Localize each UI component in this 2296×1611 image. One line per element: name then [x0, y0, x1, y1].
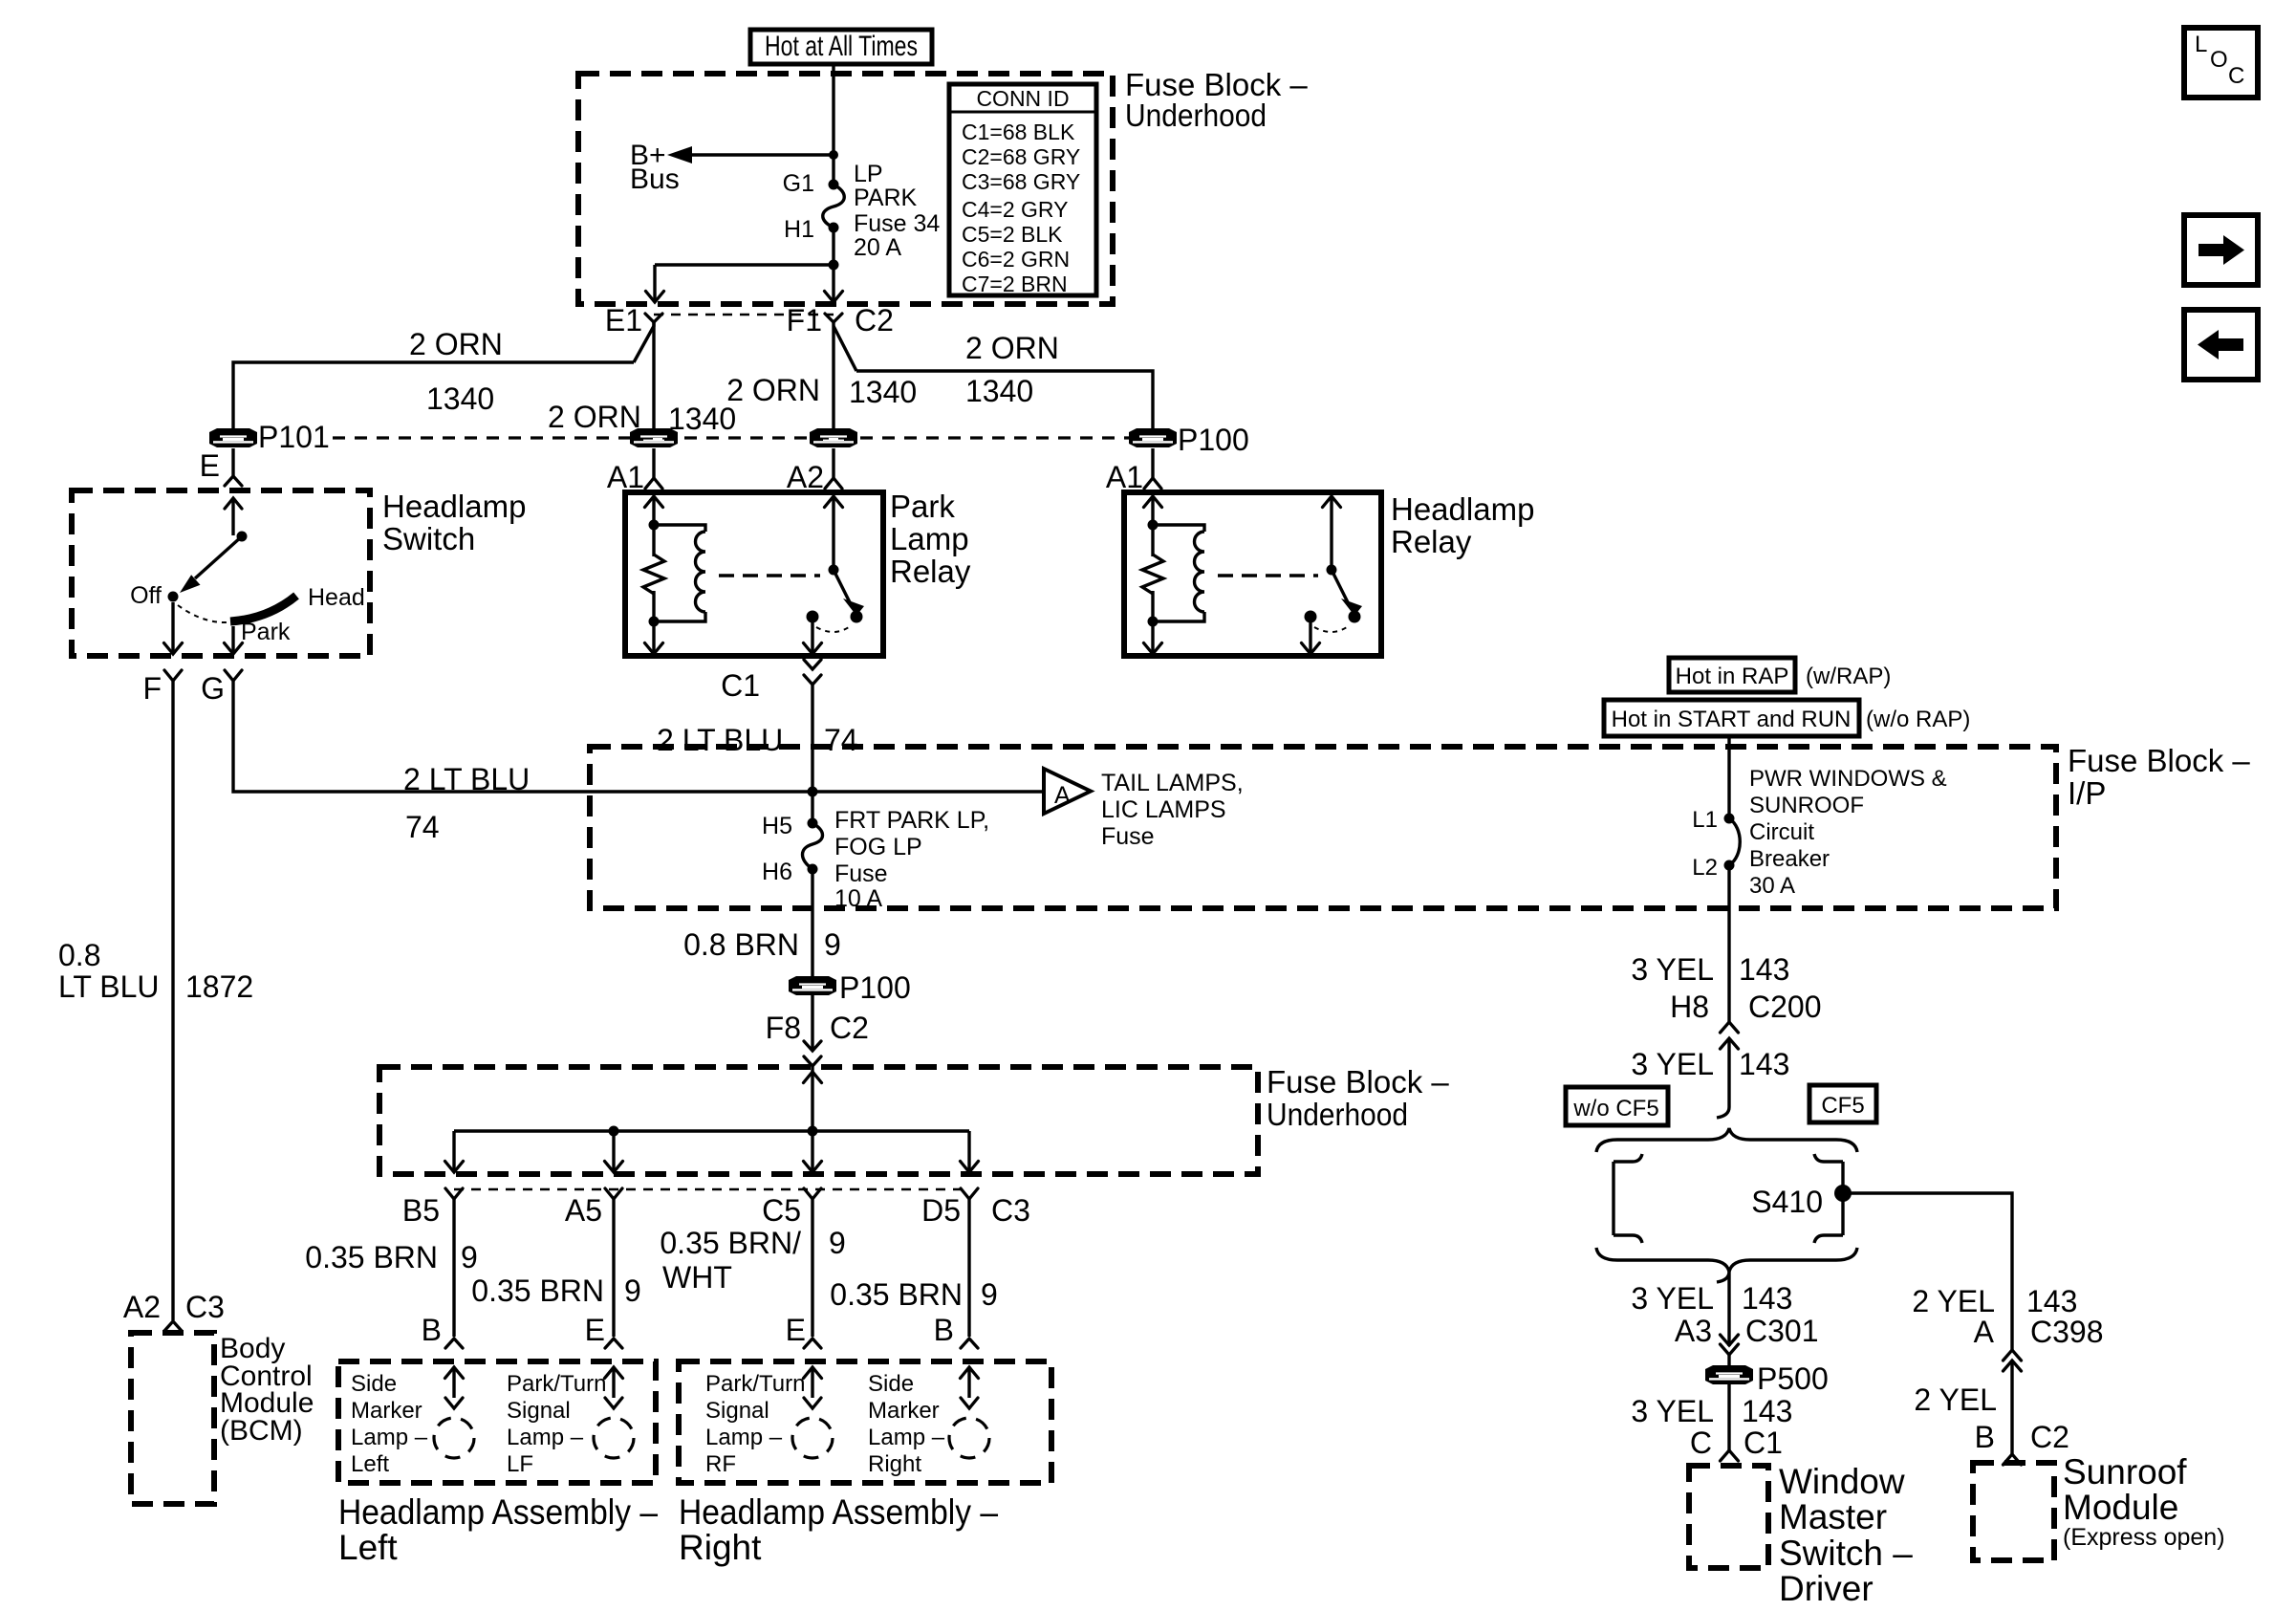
svg-text:G1: G1: [783, 170, 814, 197]
svg-text:Headlamp Assembly –: Headlamp Assembly –: [338, 1492, 658, 1532]
svg-text:Head: Head: [308, 584, 365, 611]
window master switch - driver dashed box: [1689, 1466, 1768, 1568]
fuse block - I/P dashed box: [590, 747, 2056, 908]
svg-text:A3: A3: [1675, 1314, 1712, 1348]
svg-text:9: 9: [829, 1226, 846, 1260]
label: 2 ORN 1340 (F1 drop): [726, 373, 917, 409]
relay coil and resistor (park lamp relay): [643, 496, 705, 654]
bulkhead pass-through dashed line: [333, 436, 1132, 439]
svg-text:0.8 BRN: 0.8 BRN: [683, 927, 799, 962]
wire: 3 YEL 143 from L2 to connector C200: [1727, 865, 1730, 1022]
bulb: side marker lamp right: [949, 1367, 989, 1458]
svg-text:A1: A1: [607, 460, 644, 494]
internal distribution bus with junctions: [445, 1072, 979, 1172]
wire: 0.8 LT BLU 1872 from F down to BCM: [171, 681, 174, 1320]
wire: fuse H1 output junction branching to E1 and F1: [646, 228, 843, 302]
svg-text:3 YEL: 3 YEL: [1631, 1394, 1714, 1428]
svg-text:Marker: Marker: [351, 1398, 422, 1424]
option merge lower brace: [1596, 1248, 1857, 1272]
svg-text:Left: Left: [338, 1528, 398, 1567]
svg-text:H5: H5: [762, 813, 792, 839]
svg-text:0.35 BRN/: 0.35 BRN/: [660, 1226, 801, 1260]
svg-text:3 YEL: 3 YEL: [1631, 952, 1714, 987]
svg-text:C5: C5: [762, 1193, 801, 1228]
svg-text:143: 143: [2026, 1284, 2077, 1318]
svg-text:Circuit: Circuit: [1749, 819, 1814, 845]
svg-text:F1: F1: [787, 303, 822, 337]
option split upper brace: [1596, 1128, 1857, 1152]
svg-text:E: E: [786, 1313, 806, 1347]
svg-text:C7=2 BRN: C7=2 BRN: [962, 272, 1068, 296]
connector terminal C5: [762, 1188, 821, 1337]
svg-text:1340: 1340: [426, 381, 494, 416]
svg-text:1340: 1340: [849, 375, 917, 409]
connector terminal E: [200, 448, 242, 535]
svg-text:C2=68 GRY: C2=68 GRY: [962, 144, 1080, 169]
svg-text:Park: Park: [890, 489, 955, 524]
svg-text:Driver: Driver: [1779, 1569, 1874, 1608]
svg-text:PWR WINDOWS &: PWR WINDOWS &: [1749, 766, 1947, 792]
label: 2 ORN 1340 (left run): [409, 327, 503, 416]
svg-text:2 LT BLU: 2 LT BLU: [403, 762, 530, 796]
svg-text:143: 143: [1742, 1281, 1792, 1316]
B+ Bus feed arrow and node: [630, 140, 838, 195]
wire: 2 YEL 143 from S410 to sunroof module: [1843, 1193, 2012, 1350]
labels: 0.35 BRN 9 and 0.35 BRN/WHT 9 wires: [305, 1226, 998, 1312]
svg-text:C301: C301: [1745, 1314, 1819, 1348]
svg-text:Side: Side: [868, 1371, 914, 1397]
svg-text:30 A: 30 A: [1749, 873, 1795, 899]
LOC legend icon box: [2184, 28, 2258, 98]
wires: grommets down to relay terminals: [652, 322, 655, 428]
svg-text:Switch –: Switch –: [1779, 1534, 1913, 1573]
grommet P500: [1705, 1361, 1829, 1396]
svg-text:B: B: [1975, 1420, 1995, 1454]
svg-text:Underhood: Underhood: [1267, 1097, 1408, 1132]
grommet (F1 column, unlabeled): [810, 428, 857, 447]
svg-text:(w/o RAP): (w/o RAP): [1866, 707, 1970, 732]
connector row dashed line (C3 boundary): [454, 1188, 961, 1191]
grommet (E1 column, unlabeled): [630, 428, 678, 447]
svg-text:F8: F8: [766, 1011, 801, 1045]
svg-text:9: 9: [824, 927, 841, 962]
svg-text:C2: C2: [830, 1011, 869, 1045]
fuse FRT PARK LP, FOG LP 10 A with terminals H5 and H6: [762, 807, 989, 912]
option branch CF5 with splice S410: [1751, 1154, 1852, 1243]
headlamp assembly - left dashed box: [338, 1361, 656, 1483]
svg-text:143: 143: [1739, 1047, 1789, 1081]
svg-text:9: 9: [981, 1277, 998, 1312]
svg-text:2 ORN: 2 ORN: [409, 327, 503, 361]
wire: Hot at All Times feed down to fuse G1: [832, 64, 834, 185]
svg-text:Headlamp: Headlamp: [1391, 491, 1534, 527]
connector terminal A5: [565, 1188, 622, 1337]
svg-text:A: A: [1054, 782, 1071, 809]
svg-text:WHT: WHT: [662, 1260, 732, 1295]
power source box: Hot at All Times: [750, 30, 932, 64]
switch mechanism with Off / Park / Head positions: [130, 532, 365, 655]
svg-text:TAIL LAMPS,: TAIL LAMPS,: [1101, 770, 1244, 796]
svg-text:C2: C2: [2030, 1420, 2069, 1454]
svg-text:L2: L2: [1692, 855, 1718, 881]
svg-text:Off: Off: [130, 582, 162, 609]
svg-text:B: B: [934, 1313, 954, 1347]
label: Fuse Block - Underhood (top): [1125, 67, 1308, 133]
svg-text:FRT PARK LP,: FRT PARK LP,: [834, 807, 989, 834]
svg-text:Park/Turn: Park/Turn: [705, 1371, 805, 1397]
svg-text:Lamp –: Lamp –: [868, 1425, 945, 1450]
svg-text:Park/Turn: Park/Turn: [507, 1371, 606, 1397]
connector terminal C1 (park lamp relay output): [721, 660, 821, 823]
svg-text:143: 143: [1739, 952, 1789, 987]
svg-text:G: G: [201, 671, 225, 706]
relay contacts (park lamp relay): [804, 496, 865, 654]
navigation icon: right arrow box: [2184, 215, 2258, 285]
svg-text:Signal: Signal: [507, 1398, 571, 1424]
svg-text:0.35 BRN: 0.35 BRN: [305, 1240, 438, 1274]
connector terminal B5: [402, 1188, 463, 1337]
bulb: side marker lamp left: [434, 1367, 474, 1458]
relay K1 Park Lamp Relay box: [625, 492, 883, 656]
svg-text:C2: C2: [855, 303, 894, 337]
headlamp switch S1 dashed box: [72, 490, 370, 656]
wire: 0.8 BRN 9 from H6 to grommet P100: [811, 869, 813, 977]
svg-text:2 ORN: 2 ORN: [726, 373, 820, 407]
svg-text:9: 9: [624, 1274, 641, 1308]
option tags: w/o CF5 and CF5: [1566, 1085, 1876, 1125]
svg-text:S410: S410: [1751, 1185, 1823, 1219]
connector terminal A2 of C3 (BCM): [123, 1290, 225, 1331]
wire: 2 ORN 1340 from C2 to grommet P100: [856, 371, 1153, 428]
svg-text:(w/RAP): (w/RAP): [1806, 664, 1891, 689]
svg-text:74: 74: [405, 810, 440, 844]
connector terminal D5 of C3: [921, 1188, 1030, 1337]
relay coil and resistor (headlamp relay): [1142, 496, 1204, 654]
captions: Headlamp Assembly Left / Right: [338, 1492, 998, 1567]
svg-text:Fuse: Fuse: [834, 860, 888, 887]
svg-text:C6=2 GRN: C6=2 GRN: [962, 247, 1070, 272]
headlamp assembly - right dashed box: [679, 1361, 1051, 1483]
svg-text:H6: H6: [762, 859, 792, 885]
circuit breaker PWR WINDOWS & SUNROOF 30 A with terminals L1 and L2: [1692, 766, 1946, 899]
svg-text:C5=2 BLK: C5=2 BLK: [962, 222, 1063, 247]
svg-text:Lamp –: Lamp –: [507, 1425, 584, 1450]
option split source hook: [1717, 1107, 1729, 1118]
svg-text:Fuse Block –: Fuse Block –: [2068, 743, 2250, 778]
relay actuation dashed link: [1218, 574, 1318, 577]
svg-text:E1: E1: [605, 303, 642, 337]
svg-text:1340: 1340: [965, 374, 1033, 408]
svg-text:Bus: Bus: [630, 163, 680, 195]
label: 2 ORN 1340 (right run): [965, 331, 1059, 408]
svg-text:C1=68 BLK: C1=68 BLK: [962, 120, 1075, 144]
svg-text:Lamp: Lamp: [890, 521, 969, 556]
navigation icon: left arrow box: [2184, 310, 2258, 380]
wire: 2 LT BLU 74 from G to fuse block I/P: [233, 681, 1044, 792]
svg-text:LT BLU: LT BLU: [58, 969, 160, 1004]
svg-text:Switch: Switch: [382, 521, 475, 556]
svg-text:Signal: Signal: [705, 1398, 769, 1424]
svg-text:D5: D5: [921, 1193, 961, 1228]
lamp connector terminals B / E / E / B: [422, 1313, 978, 1348]
svg-text:C: C: [2228, 63, 2244, 89]
svg-text:2 LT BLU: 2 LT BLU: [657, 723, 783, 757]
svg-text:PARK: PARK: [854, 185, 918, 211]
svg-text:143: 143: [1742, 1394, 1792, 1428]
svg-text:Master: Master: [1779, 1497, 1887, 1536]
wire: merged 3 YEL 143 resumes: [1717, 1272, 1729, 1346]
svg-text:RF: RF: [705, 1451, 736, 1477]
label: 0.8 BRN 9: [683, 927, 841, 962]
terminal A2 (park lamp relay switch): [787, 460, 842, 494]
svg-text:O: O: [2210, 47, 2228, 73]
svg-text:1872: 1872: [185, 969, 253, 1004]
labels: lamp names inside assemblies: [351, 1371, 945, 1477]
terminal A1 (headlamp relay): [1106, 460, 1161, 494]
svg-text:C4=2 GRY: C4=2 GRY: [962, 197, 1068, 222]
svg-text:Hot in RAP: Hot in RAP: [1676, 664, 1789, 689]
relay K2 Headlamp Relay box: [1124, 492, 1381, 656]
svg-text:L1: L1: [1692, 807, 1718, 833]
svg-text:Window: Window: [1779, 1462, 1905, 1501]
svg-text:2 ORN: 2 ORN: [548, 400, 641, 434]
bulb: park/turn signal lamp RF: [792, 1367, 833, 1458]
svg-text:Fuse: Fuse: [1101, 823, 1155, 850]
svg-text:74: 74: [824, 723, 858, 757]
CONN ID legend table: [949, 84, 1096, 296]
svg-text:C3: C3: [185, 1290, 225, 1324]
svg-text:C3=68 GRY: C3=68 GRY: [962, 169, 1080, 194]
svg-text:Relay: Relay: [1391, 524, 1472, 559]
bulb: park/turn signal lamp LF: [594, 1367, 634, 1458]
label: Headlamp Switch: [382, 489, 526, 556]
connector terminal F1 of C2: [787, 303, 894, 438]
svg-text:Right: Right: [868, 1451, 921, 1477]
body control module (BCM) dashed box: [131, 1333, 214, 1504]
terminal A1 (park lamp relay coil): [607, 460, 662, 494]
svg-text:E: E: [585, 1313, 605, 1347]
wire: feed down to circuit breaker L1: [1727, 736, 1730, 818]
label: 2 LT BLU 74 (C1 wire): [657, 723, 858, 757]
svg-text:I/P: I/P: [2068, 775, 2106, 811]
svg-text:(BCM): (BCM): [220, 1415, 303, 1447]
svg-text:LP: LP: [854, 161, 883, 187]
power source boxes: Hot in RAP / Hot in START and RUN: [1604, 658, 1970, 736]
label: 2 LT BLU 74 (G wire): [403, 762, 530, 844]
connector terminal A3 of C301: [1631, 1281, 1818, 1375]
svg-text:Hot at All Times: Hot at All Times: [765, 31, 918, 62]
sunroof module dashed box: [1973, 1463, 2054, 1560]
svg-text:F: F: [142, 671, 162, 706]
svg-text:CF5: CF5: [1821, 1093, 1864, 1119]
svg-text:Module: Module: [2063, 1488, 2178, 1527]
svg-text:Lamp –: Lamp –: [705, 1425, 783, 1450]
svg-text:A: A: [1974, 1315, 1995, 1349]
svg-text:LIC LAMPS: LIC LAMPS: [1101, 796, 1226, 823]
svg-text:FOG LP: FOG LP: [834, 834, 922, 860]
svg-text:w/o CF5: w/o CF5: [1572, 1096, 1658, 1121]
svg-text:C3: C3: [991, 1193, 1030, 1228]
connector terminals A of C398 and B of C2 (sunroof): [1912, 1284, 2103, 1465]
connector terminal E1: [605, 303, 662, 362]
svg-text:0.35 BRN: 0.35 BRN: [830, 1277, 963, 1312]
svg-text:10 A: 10 A: [834, 885, 882, 912]
svg-text:Relay: Relay: [890, 554, 971, 589]
svg-text:0.8: 0.8: [58, 938, 100, 972]
svg-text:C398: C398: [2030, 1315, 2104, 1349]
svg-text:Fuse Block –: Fuse Block –: [1267, 1064, 1449, 1099]
svg-text:B5: B5: [402, 1193, 440, 1228]
svg-text:C: C: [1690, 1426, 1712, 1460]
grommet P101: [209, 420, 330, 454]
svg-text:B: B: [422, 1313, 442, 1347]
svg-text:L: L: [2195, 32, 2207, 57]
svg-text:E: E: [200, 448, 220, 483]
label: 2 ORN 1340 (E1 drop): [548, 400, 736, 436]
svg-text:C1: C1: [721, 668, 760, 703]
svg-text:H8: H8: [1670, 990, 1709, 1024]
relay actuation dashed link: [719, 574, 820, 577]
svg-text:C200: C200: [1748, 990, 1822, 1024]
connector terminal F8 of C2: [766, 1011, 869, 1131]
svg-text:Fuse 34: Fuse 34: [854, 210, 940, 237]
svg-text:(Express open): (Express open): [2063, 1524, 2225, 1551]
svg-text:P100: P100: [839, 970, 911, 1005]
svg-text:Left: Left: [351, 1451, 389, 1477]
svg-text:Breaker: Breaker: [1749, 846, 1830, 872]
svg-text:3 YEL: 3 YEL: [1631, 1047, 1714, 1081]
svg-text:H1: H1: [784, 216, 814, 243]
relay contacts (headlamp relay): [1302, 496, 1363, 654]
label: 0.8 LT BLU 1872 (F wire): [58, 938, 253, 1004]
svg-text:P100: P100: [1178, 423, 1249, 457]
connector row dashed line (C2 boundary): [654, 314, 834, 316]
svg-text:Marker: Marker: [868, 1398, 940, 1424]
svg-text:0.35 BRN: 0.35 BRN: [471, 1274, 604, 1308]
svg-text:A2: A2: [123, 1290, 161, 1324]
svg-text:20 A: 20 A: [854, 234, 901, 261]
svg-text:Sunroof: Sunroof: [2063, 1452, 2187, 1491]
svg-text:Headlamp: Headlamp: [382, 489, 526, 524]
option branch w/o CF5: [1614, 1154, 1642, 1243]
svg-text:Park: Park: [241, 619, 291, 645]
svg-text:Right: Right: [679, 1528, 762, 1567]
feed arrow A to TAIL LAMPS, LIC LAMPS Fuse: [1044, 769, 1244, 850]
grommet P100: [1129, 423, 1249, 457]
svg-text:LF: LF: [507, 1451, 533, 1477]
svg-text:9: 9: [461, 1240, 478, 1274]
svg-text:CONN ID: CONN ID: [976, 86, 1069, 111]
svg-text:Headlamp Assembly –: Headlamp Assembly –: [679, 1492, 998, 1532]
svg-text:Underhood: Underhood: [1125, 98, 1267, 133]
svg-text:A1: A1: [1106, 460, 1143, 494]
svg-text:Hot in START and RUN: Hot in START and RUN: [1612, 707, 1852, 732]
svg-text:2 YEL: 2 YEL: [1914, 1382, 1997, 1417]
wire: 2 ORN 1340 from E1 to grommet P101: [233, 362, 634, 428]
fuse block - underhood (top) dashed box: [578, 74, 1113, 304]
fuse F34 LP PARK 20 A with terminals G1 and H1: [783, 161, 941, 261]
svg-text:A5: A5: [565, 1193, 602, 1228]
svg-text:P101: P101: [258, 420, 330, 454]
svg-text:2 ORN: 2 ORN: [965, 331, 1059, 365]
svg-text:C1: C1: [1744, 1426, 1783, 1460]
wire: P101 down to switch terminal E: [231, 448, 234, 476]
svg-text:A2: A2: [787, 460, 824, 494]
svg-text:P500: P500: [1757, 1361, 1829, 1396]
svg-text:SUNROOF: SUNROOF: [1749, 793, 1864, 818]
svg-text:3 YEL: 3 YEL: [1631, 1281, 1714, 1316]
svg-text:Lamp –: Lamp –: [351, 1425, 428, 1450]
connector terminals F and G: [142, 670, 242, 706]
fuse block - underhood (lower) dashed box: [379, 1067, 1258, 1174]
grommet P100 (lower): [789, 970, 911, 1005]
svg-text:2 YEL: 2 YEL: [1912, 1284, 1995, 1318]
svg-text:Side: Side: [351, 1371, 397, 1397]
